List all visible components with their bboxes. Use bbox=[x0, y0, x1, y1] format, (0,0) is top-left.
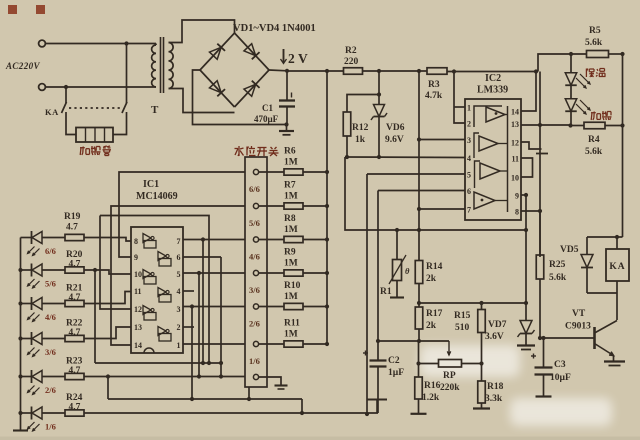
resistor R8 bbox=[284, 236, 303, 242]
junction R4 left bbox=[568, 123, 572, 127]
red mark 2 bbox=[36, 5, 45, 14]
resistor R5 bbox=[587, 51, 609, 58]
wire 5/6 line bbox=[111, 206, 245, 345]
svg-text:14: 14 bbox=[134, 341, 142, 350]
svg-text:2: 2 bbox=[288, 51, 295, 66]
wire to R12 top bbox=[347, 95, 379, 113]
diode VD3 bbox=[209, 81, 225, 97]
LED jiare bbox=[565, 86, 590, 114]
ground R1 bbox=[390, 296, 404, 298]
svg-text:1M: 1M bbox=[284, 259, 298, 269]
svg-text:6: 6 bbox=[467, 187, 471, 196]
switch level labels bbox=[249, 184, 260, 366]
svg-text:C9013: C9013 bbox=[565, 322, 591, 332]
label VD5 bbox=[560, 245, 579, 255]
junction C3 top bbox=[541, 336, 545, 340]
svg-text:1/6: 1/6 bbox=[249, 356, 260, 366]
wire x540 vertical bbox=[539, 72, 541, 258]
wire sense rail x327 bbox=[326, 71, 328, 344]
wire R14 bottom bbox=[418, 284, 420, 308]
svg-text:IC1: IC1 bbox=[143, 179, 159, 190]
relay contact KA dashed link bbox=[69, 107, 120, 109]
wire pin9 line bbox=[521, 194, 526, 196]
svg-text:14: 14 bbox=[511, 108, 519, 117]
svg-text:R17: R17 bbox=[426, 309, 443, 319]
wire R22 to pin13 bbox=[84, 327, 131, 339]
svg-text:220k: 220k bbox=[440, 383, 460, 393]
svg-text:R6: R6 bbox=[284, 147, 296, 157]
svg-text:4.7: 4.7 bbox=[69, 366, 81, 376]
wire relay top bar bbox=[587, 236, 623, 238]
diode VD2 bbox=[244, 44, 260, 60]
capacitor C2 bbox=[363, 341, 387, 413]
svg-text:VD5: VD5 bbox=[560, 245, 579, 255]
label level 4/6 bbox=[45, 312, 56, 322]
LED 2/6 indicator bbox=[28, 370, 43, 395]
resistor R6 bbox=[284, 169, 303, 175]
thermistor R1 bbox=[389, 230, 410, 297]
junction x367 bottom bbox=[365, 412, 369, 416]
wire R18 bottom bbox=[481, 403, 483, 408]
wire 1/6 line bbox=[183, 343, 245, 345]
svg-text:MC14069: MC14069 bbox=[136, 191, 178, 202]
wire LED to R19 bbox=[42, 237, 65, 239]
svg-text:R12: R12 bbox=[352, 123, 369, 133]
svg-text:4: 4 bbox=[177, 287, 181, 296]
junction x209 bus bbox=[207, 361, 211, 365]
resistor R4 bbox=[584, 122, 605, 129]
transformer T core bbox=[161, 37, 164, 93]
wire right rail bbox=[622, 54, 624, 237]
diode VD4 bbox=[244, 81, 260, 97]
svg-text:1: 1 bbox=[467, 104, 471, 113]
transformer T secondary winding bbox=[169, 43, 174, 89]
junction x203 bus bbox=[201, 361, 205, 365]
svg-text:1M: 1M bbox=[284, 292, 298, 302]
svg-text:R15: R15 bbox=[454, 311, 471, 321]
junction pin3 bbox=[417, 137, 421, 141]
junction right rail R4 bbox=[620, 123, 624, 127]
junction rail R11 bbox=[325, 342, 329, 346]
wire pin3 feed bbox=[419, 139, 465, 141]
junction relay top bbox=[615, 235, 619, 239]
wire heater right lead bbox=[113, 112, 127, 135]
junction rail R6 bbox=[325, 170, 329, 174]
wire rail to LED 6/6 bbox=[21, 237, 32, 239]
IC1 inverter gates bbox=[143, 234, 171, 342]
AC terminal lower bbox=[39, 84, 46, 91]
junction C1 bottom bbox=[284, 122, 288, 126]
ground LED rail end bbox=[13, 429, 28, 431]
junction rail x379 bbox=[377, 69, 381, 73]
wire 12V rail segment A bbox=[287, 70, 344, 72]
IC2 pin numbers bbox=[467, 104, 519, 217]
resistor R3 bbox=[427, 68, 447, 75]
wire RP left lead bbox=[419, 363, 439, 365]
wire bus y399 bbox=[108, 398, 302, 400]
label VD6 bbox=[385, 123, 405, 145]
junction rail R9 bbox=[325, 271, 329, 275]
label KA bbox=[45, 107, 59, 117]
junction LED rail 3/6 bbox=[18, 336, 22, 340]
wire contact to R8 bbox=[259, 239, 285, 241]
label R11 bbox=[284, 319, 300, 340]
svg-text:VT: VT bbox=[572, 309, 586, 319]
resistor R16 bbox=[415, 377, 423, 399]
svg-text:11: 11 bbox=[134, 287, 142, 296]
svg-text:3.6V: 3.6V bbox=[485, 332, 504, 342]
scan edge bottom bbox=[0, 437, 640, 440]
wire switch bottom stub bbox=[248, 387, 250, 399]
label R8 bbox=[284, 214, 298, 235]
wire LED to R4 bbox=[570, 112, 572, 126]
label R3 bbox=[425, 80, 443, 101]
wire KA left to heater bbox=[66, 112, 76, 135]
svg-text:5: 5 bbox=[177, 270, 181, 279]
wire rail R2-R3 bbox=[363, 70, 428, 72]
wire pin12 stub bbox=[521, 142, 548, 154]
junction RP left bbox=[416, 361, 420, 365]
label R5 bbox=[585, 26, 603, 48]
svg-text:R22: R22 bbox=[66, 319, 83, 329]
svg-text:R9: R9 bbox=[284, 248, 296, 258]
junction 3/6 x199 bbox=[197, 271, 201, 275]
label MC14069 bbox=[136, 191, 178, 202]
wire emitter lead bbox=[613, 356, 615, 362]
resistor R25 bbox=[536, 211, 544, 279]
label R6 bbox=[284, 147, 298, 168]
svg-text:1/6: 1/6 bbox=[45, 422, 56, 432]
svg-text:1M: 1M bbox=[284, 158, 298, 168]
wire rail to LED 3/6 bbox=[21, 338, 32, 340]
resistor R23 bbox=[65, 373, 84, 379]
junction 12V node bbox=[285, 69, 289, 73]
wire wiper node line bbox=[378, 340, 449, 342]
svg-text:4.7: 4.7 bbox=[66, 223, 78, 233]
svg-text:4/6: 4/6 bbox=[249, 252, 260, 262]
ground bridge minus bbox=[279, 125, 294, 135]
wire contact to R11 bbox=[259, 343, 285, 345]
wire ref down to VD7 node bbox=[525, 230, 527, 303]
wire KA branch drop bbox=[65, 87, 67, 103]
svg-text:R20: R20 bbox=[66, 250, 83, 260]
wire R4 left lead bbox=[571, 125, 585, 127]
svg-text:VD6: VD6 bbox=[386, 123, 405, 133]
junction wiper node bbox=[417, 339, 421, 343]
wire pin1 pin2 feed bbox=[454, 72, 465, 124]
svg-text:R11: R11 bbox=[284, 319, 300, 329]
label R12 bbox=[352, 123, 369, 145]
svg-text:3: 3 bbox=[177, 305, 181, 314]
wire node9v6 to pin4 bbox=[345, 156, 465, 159]
wire R10 to rail bbox=[303, 306, 327, 308]
svg-text:6: 6 bbox=[177, 253, 181, 262]
wire pin6 drop to C2 node bbox=[377, 191, 379, 342]
junction R15 top bbox=[479, 301, 483, 305]
wire bridge side BR bbox=[235, 70, 270, 107]
svg-text:3: 3 bbox=[467, 136, 471, 145]
label R22 bbox=[66, 319, 83, 339]
junction R20 x95 bbox=[93, 268, 97, 272]
wire R5 right bbox=[609, 53, 623, 55]
svg-text:IC2: IC2 bbox=[485, 73, 501, 84]
svg-text:1k: 1k bbox=[355, 135, 366, 145]
svg-text:R8: R8 bbox=[284, 214, 296, 224]
label R17 bbox=[426, 309, 443, 331]
svg-text:6/6: 6/6 bbox=[249, 184, 260, 194]
wire LED to R24 bbox=[42, 412, 65, 414]
wire bus y363 bbox=[95, 362, 221, 364]
ground switch common bbox=[275, 386, 288, 390]
resistor R10 bbox=[284, 303, 303, 309]
transistor VT C9013 bbox=[595, 321, 618, 356]
svg-text:5/6: 5/6 bbox=[45, 279, 56, 289]
junction R12 VD6 split bbox=[377, 92, 381, 96]
AC terminal upper bbox=[39, 40, 46, 47]
wire LED to R22 bbox=[42, 338, 65, 340]
junction 4/6 x203 bbox=[201, 237, 205, 241]
comparator U2D bbox=[474, 192, 508, 209]
label R9 bbox=[284, 248, 298, 269]
junction rail R10 bbox=[325, 304, 329, 308]
resistor R15 bbox=[478, 303, 486, 333]
wire KA leads bbox=[616, 237, 618, 293]
svg-text:R3: R3 bbox=[428, 80, 440, 90]
wire R7 to rail bbox=[303, 205, 327, 207]
wire R8 to rail bbox=[303, 239, 327, 241]
resistor R21 bbox=[65, 300, 84, 306]
watermark blur 1 bbox=[420, 345, 520, 377]
LED 3/6 indicator bbox=[28, 332, 43, 357]
wire pin11 pin10 stub bbox=[521, 158, 533, 177]
ground VD7 bbox=[517, 346, 535, 350]
label level 6/6 bbox=[45, 246, 56, 256]
wire bridge side TL bbox=[200, 33, 235, 70]
junction pin7 node bbox=[417, 207, 421, 211]
label 1uF bbox=[388, 368, 404, 378]
svg-text:C2: C2 bbox=[388, 356, 400, 366]
LED 4/6 indicator bbox=[28, 297, 43, 322]
wire KA right riser bbox=[126, 44, 128, 104]
svg-text:KA: KA bbox=[609, 262, 625, 272]
wire collector riser bbox=[616, 293, 618, 320]
wire common contact right bbox=[259, 377, 282, 385]
label R4 bbox=[585, 135, 603, 157]
label C9013 bbox=[565, 322, 591, 332]
IC2 inner frame bbox=[474, 106, 508, 212]
wire pin7 line bbox=[419, 208, 465, 210]
wire rail R3 right bbox=[447, 71, 538, 73]
resistor R7 bbox=[284, 203, 303, 209]
label 10uF bbox=[550, 373, 571, 383]
label AC220V bbox=[5, 61, 41, 71]
svg-text:R21: R21 bbox=[66, 284, 83, 294]
resistor R14 bbox=[415, 261, 423, 284]
wire x108 drop bbox=[107, 377, 109, 400]
wire x95 drop bbox=[94, 270, 96, 363]
wire R25 bottom bbox=[539, 279, 541, 338]
junction rail x454 bbox=[452, 69, 456, 73]
svg-text:3/6: 3/6 bbox=[249, 285, 260, 295]
junction VD6 bottom bbox=[377, 155, 381, 159]
svg-text:8: 8 bbox=[134, 237, 138, 246]
svg-text:1µF: 1µF bbox=[388, 368, 404, 378]
svg-text:2k: 2k bbox=[426, 274, 437, 284]
svg-text:5: 5 bbox=[467, 171, 471, 180]
junction y230 x419 bbox=[417, 228, 421, 232]
junction y230 x526 bbox=[524, 228, 528, 232]
svg-text:4.7: 4.7 bbox=[69, 260, 81, 270]
wire RP right lead bbox=[462, 363, 482, 365]
wire x100 drop bbox=[100, 216, 131, 310]
svg-text:9: 9 bbox=[515, 192, 519, 201]
LED 5/6 indicator bbox=[28, 264, 43, 289]
IC1 bottom notch bbox=[144, 348, 154, 353]
svg-text:8: 8 bbox=[515, 208, 519, 217]
junction LED rail 5/6 bbox=[18, 268, 22, 272]
svg-text:VD7: VD7 bbox=[488, 320, 507, 330]
wire pin9 drop bbox=[525, 195, 527, 230]
wire pin2 stub bbox=[183, 326, 194, 328]
wire contact to R6 bbox=[259, 171, 285, 173]
wire rail to LED 4/6 bbox=[21, 303, 32, 305]
junction LED rail 2/6 bbox=[18, 374, 22, 378]
svg-text:2: 2 bbox=[177, 323, 181, 332]
junction C2 top bbox=[376, 339, 380, 343]
junction AC bottom x66 bbox=[64, 85, 68, 89]
svg-text:1M: 1M bbox=[284, 192, 298, 202]
label IC2 bbox=[485, 73, 501, 84]
wire x221 drop bbox=[220, 257, 222, 377]
junction VD7 top bbox=[524, 301, 528, 305]
label KA relay bbox=[609, 262, 625, 272]
svg-text:R24: R24 bbox=[66, 393, 83, 403]
junction RP right bbox=[479, 361, 483, 365]
junction rail R7 bbox=[325, 204, 329, 208]
junction pin8 x540 bbox=[538, 209, 542, 213]
junction LED rail 1/6 bbox=[18, 411, 22, 415]
wire R9 to rail bbox=[303, 272, 327, 274]
wire x419 vertical bbox=[418, 71, 420, 261]
wire R23 bus y376 bbox=[84, 376, 245, 378]
resistor R12 bbox=[343, 112, 351, 136]
inverter IC1 box bbox=[131, 227, 183, 353]
wire node9v6 down bbox=[345, 157, 526, 230]
junction rail x419 bbox=[417, 69, 421, 73]
wire rail corner up bbox=[538, 54, 586, 72]
label R18 bbox=[485, 382, 504, 404]
wire rail to LED 5/6 bbox=[21, 269, 32, 271]
svg-text:220: 220 bbox=[344, 57, 359, 67]
label R1 bbox=[380, 287, 392, 297]
svg-text:AC220V: AC220V bbox=[5, 61, 41, 71]
junction pin9 bbox=[524, 193, 528, 197]
label 470uF bbox=[254, 114, 279, 124]
wire R17R16 link bbox=[418, 341, 420, 377]
svg-text:13: 13 bbox=[511, 120, 519, 129]
junction rail R8 bbox=[325, 237, 329, 241]
wire x192 drop bbox=[191, 307, 193, 400]
label R10 bbox=[284, 281, 301, 302]
ground bottom rail tick bbox=[367, 400, 387, 414]
svg-text:2: 2 bbox=[467, 120, 471, 129]
IC1 pin numbers bbox=[134, 237, 181, 350]
resistor R2 bbox=[344, 68, 363, 75]
label R15 bbox=[454, 311, 471, 333]
svg-text:1M: 1M bbox=[284, 330, 298, 340]
label 12V bbox=[281, 49, 309, 66]
svg-text:1M: 1M bbox=[284, 225, 298, 235]
wire R20 to pin10 bbox=[84, 270, 131, 274]
junction right rail top bbox=[620, 52, 624, 56]
watermark blur 2 bbox=[510, 398, 612, 426]
wire pin6 stub bbox=[183, 256, 221, 258]
svg-text:3.3k: 3.3k bbox=[485, 394, 503, 404]
wire LED cathode rail bbox=[20, 238, 22, 431]
label VD1~VD4 1N4001 bbox=[233, 23, 316, 34]
svg-text:R7: R7 bbox=[284, 181, 296, 191]
junction 2/6 x192 bbox=[190, 304, 194, 308]
svg-text:R23: R23 bbox=[66, 357, 83, 367]
wire R16 bottom bbox=[418, 399, 420, 414]
svg-text:T: T bbox=[151, 104, 159, 116]
svg-text:R10: R10 bbox=[284, 281, 301, 291]
zener diode VD7 bbox=[518, 303, 535, 345]
junction x199 bus bbox=[197, 374, 201, 378]
label R24 bbox=[66, 393, 83, 413]
comparator U2C bbox=[475, 161, 508, 188]
svg-text:1: 1 bbox=[177, 341, 181, 350]
label R20 bbox=[66, 250, 83, 270]
svg-text:9: 9 bbox=[134, 253, 138, 262]
comparator IC2 LM339 box bbox=[465, 99, 521, 220]
diode VD1 bbox=[209, 44, 225, 60]
wire AC bottom bbox=[46, 86, 157, 88]
wire LED to R20 bbox=[42, 269, 65, 271]
svg-text:C1: C1 bbox=[262, 103, 273, 113]
label RP bbox=[440, 371, 460, 393]
wire pin5 drop bbox=[366, 174, 368, 414]
ground R16 bbox=[411, 413, 427, 415]
svg-text:2/6: 2/6 bbox=[45, 385, 56, 395]
svg-text:11: 11 bbox=[511, 155, 519, 164]
junction bus399 x249 bbox=[247, 397, 251, 401]
wire contact to R10 bbox=[259, 306, 285, 308]
resistor R11 bbox=[284, 341, 303, 347]
wire R12-VD6 feed bbox=[378, 71, 380, 95]
svg-text:θ: θ bbox=[405, 266, 410, 276]
label C3 bbox=[554, 360, 566, 370]
wire LED to R23 bbox=[42, 376, 65, 378]
svg-text:6/6: 6/6 bbox=[45, 246, 56, 256]
zener diode VD6 bbox=[371, 95, 387, 158]
junction ref node bbox=[417, 301, 421, 305]
wire bridge minus path bbox=[193, 70, 287, 125]
wire LED to R21 bbox=[42, 303, 65, 305]
svg-text:2k: 2k bbox=[426, 321, 437, 331]
junction bus363 x221 bbox=[219, 361, 223, 365]
wire pin13 line bbox=[521, 124, 571, 126]
wire x302 link bbox=[301, 399, 303, 413]
junction rail x327 bbox=[325, 69, 329, 73]
svg-text:R19: R19 bbox=[64, 212, 81, 222]
svg-text:4: 4 bbox=[467, 154, 471, 163]
wire R19 to pin8 bbox=[84, 238, 131, 242]
wire secondary bottom lead bbox=[169, 89, 235, 113]
wire R15 bottom bbox=[481, 333, 483, 364]
svg-text:7: 7 bbox=[467, 206, 471, 215]
resistor R9 bbox=[284, 270, 303, 276]
